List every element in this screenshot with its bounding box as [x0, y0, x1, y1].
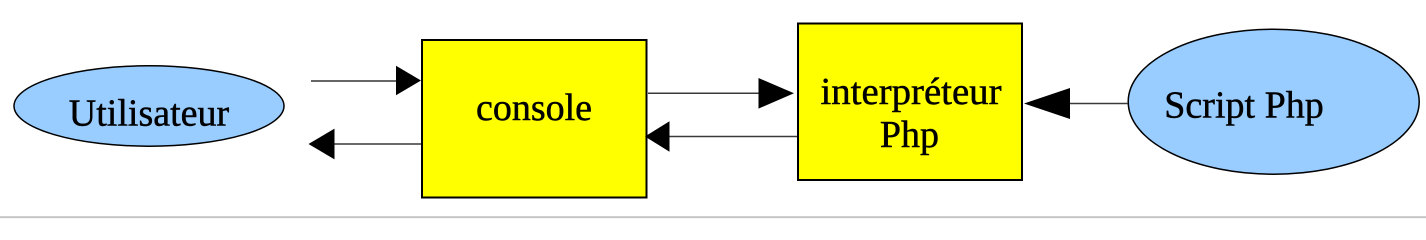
arrowhead into interpreteur left edge: [759, 78, 795, 109]
arrowhead toward Utilisateur: [309, 129, 335, 160]
separator line bottom: [0, 216, 1426, 218]
arrowhead into interpreteur right edge: [1024, 88, 1070, 119]
wire console to Utilisateur: [333, 143, 421, 145]
arrowhead into console left edge: [396, 66, 421, 96]
wire interpreteur to console: [667, 136, 797, 138]
wire console to interpreteur: [648, 92, 762, 94]
svg-text:Script Php: Script Php: [1164, 85, 1323, 127]
node Utilisateur (blue ellipse): [14, 66, 284, 146]
wire Script Php to interpreteur: [1068, 103, 1128, 105]
arrowhead into console right edge: [645, 121, 670, 152]
node Script Php (blue ellipse): [1128, 29, 1419, 174]
svg-text:console: console: [476, 87, 592, 129]
svg-text:Php: Php: [880, 114, 939, 156]
svg-text:interpréteur: interpréteur: [821, 71, 1002, 113]
svg-text:Utilisateur: Utilisateur: [69, 93, 230, 135]
box console (yellow rectangle): [422, 40, 647, 198]
wire Utilisateur to console: [311, 80, 400, 82]
box interpreteur Php (yellow rectangle): [798, 24, 1022, 181]
